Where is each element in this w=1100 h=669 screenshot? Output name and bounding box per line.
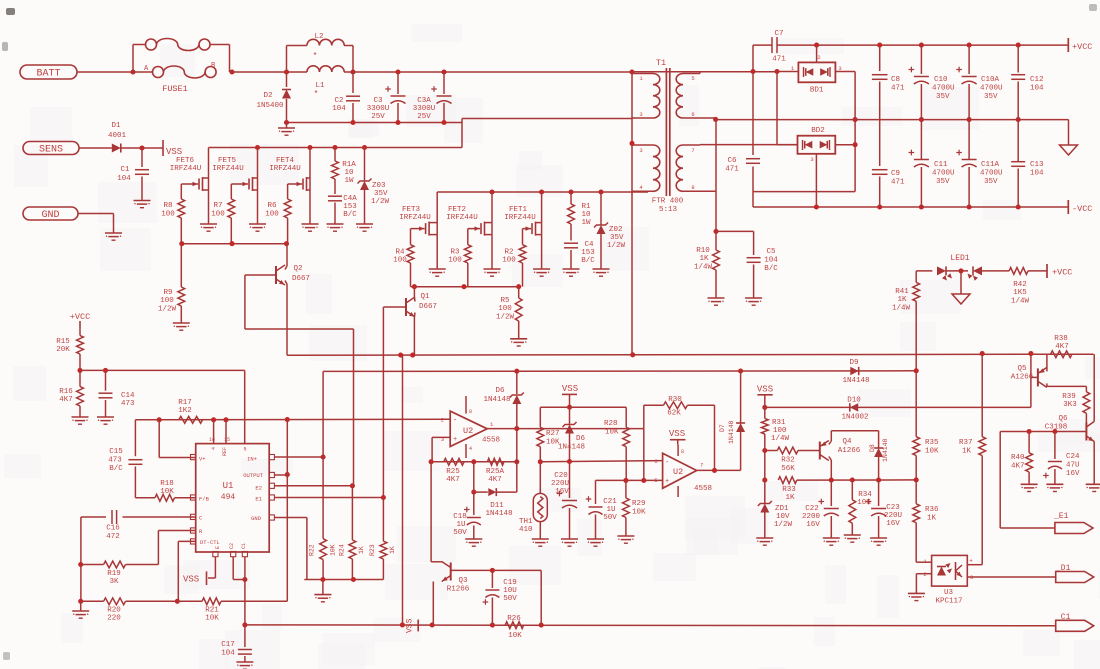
node C7 rail [750, 69, 755, 74]
diode D9 1N4148 [842, 359, 869, 385]
svg-text:B/C: B/C [764, 265, 778, 273]
svg-text:7: 7 [700, 462, 703, 469]
svg-text:1/4W: 1/4W [892, 305, 911, 313]
svg-text:R31: R31 [772, 419, 786, 427]
svg-text:1K2: 1K2 [178, 407, 192, 415]
ground at GND terminal [105, 233, 122, 240]
wire R17 line [135, 417, 450, 422]
svg-text:FET6: FET6 [176, 157, 195, 165]
svg-text:R35: R35 [925, 439, 939, 447]
svg-text:1/4W: 1/4W [1011, 298, 1030, 306]
svg-text:DT-CTL: DT-CTL [200, 539, 220, 546]
diode D6 1N4148 (top) [483, 371, 523, 428]
transistor FET4 IRFZ44U [269, 148, 318, 232]
svg-text:471: 471 [772, 56, 786, 64]
svg-text:R18: R18 [160, 480, 174, 488]
capacitor C17 104 [221, 641, 253, 669]
svg-text:R28: R28 [604, 420, 618, 428]
wire R30 left vertical [643, 405, 645, 428]
led LED1a [937, 266, 952, 280]
svg-text:TH1: TH1 [519, 518, 533, 526]
svg-text:VSS: VSS [562, 384, 578, 394]
resistor R21 10K [177, 598, 287, 623]
wire x402 vertical [402, 355, 404, 625]
wire BD1 right vertical [853, 72, 858, 192]
capacitor C3A 3300U 25V [413, 72, 452, 123]
ground below C1 [134, 201, 151, 208]
wire Q1 collector [413, 287, 416, 302]
node bottom line left [242, 622, 247, 627]
wire U1 E2 line [274, 485, 352, 487]
svg-text:100: 100 [773, 427, 787, 435]
svg-text:D8: D8 [869, 444, 876, 452]
svg-text:R40: R40 [1011, 454, 1025, 462]
terminal GND [23, 207, 78, 221]
resistor R17 1K2 [178, 399, 202, 423]
wire secondary mid rail start [713, 117, 718, 122]
svg-text:R29: R29 [632, 500, 646, 508]
svg-text:R22: R22 [309, 544, 316, 556]
svg-text:R20: R20 [107, 607, 121, 615]
svg-text:C14: C14 [121, 392, 135, 400]
svg-text:-VCC: -VCC [1072, 204, 1092, 214]
svg-text:-: - [665, 459, 669, 467]
svg-text:1/2W: 1/2W [774, 521, 793, 529]
capacitor C4A 153 B/C [327, 195, 358, 231]
node C17 line top [242, 577, 247, 582]
svg-text:10: 10 [344, 169, 354, 177]
capacitor C24 47U 16V [1043, 432, 1080, 492]
svg-text:V+: V+ [199, 456, 206, 463]
node DTCTL bottom [175, 599, 180, 604]
svg-text:E: E [215, 546, 221, 549]
svg-text:471: 471 [891, 85, 905, 93]
svg-text:R23: R23 [369, 544, 376, 556]
wire U1 OUTPUT line [274, 474, 287, 476]
svg-text:C10: C10 [934, 76, 948, 84]
svg-text:1K: 1K [785, 494, 795, 502]
svg-text:D1: D1 [111, 122, 121, 130]
svg-text:1/2W: 1/2W [371, 198, 390, 206]
svg-text:R27: R27 [546, 430, 560, 438]
wire E1 loop [1000, 432, 1055, 529]
svg-text:104: 104 [221, 650, 235, 658]
wire Q6 emitter [1086, 442, 1100, 492]
svg-text:1N4148: 1N4148 [483, 396, 510, 404]
wire T1 to BD1 rail [632, 71, 777, 73]
svg-text:472: 472 [106, 533, 120, 541]
transformer T1 core [656, 58, 670, 196]
wire R10 top [715, 119, 717, 231]
svg-text:56K: 56K [781, 465, 795, 473]
svg-text:16V: 16V [806, 521, 820, 529]
svg-text:GND: GND [251, 515, 262, 522]
node OUTPUT [285, 472, 290, 477]
wire GND to ground [78, 214, 114, 234]
capacitor C12 104 [1011, 45, 1044, 120]
svg-text:1K: 1K [389, 546, 396, 554]
resistor R20 220 [81, 598, 178, 623]
wire U1 IN+ line [274, 456, 323, 458]
wire D10 right vertical [1030, 354, 1032, 408]
svg-text:1N4002: 1N4002 [841, 414, 868, 422]
node L network right [350, 69, 355, 74]
svg-text:10K: 10K [508, 632, 522, 640]
capacitor C19 10U 50V [483, 570, 518, 625]
wire D10 line [765, 406, 1031, 408]
ground below C16 left [72, 601, 89, 618]
wire U2b plus line [596, 478, 663, 483]
node E1 Q1base [381, 495, 386, 500]
wire gate bus row2 [411, 284, 522, 289]
bridge BD2 [777, 127, 855, 207]
svg-text:+: + [665, 478, 669, 486]
svg-text:10U: 10U [503, 587, 517, 595]
svg-text:C6: C6 [727, 157, 737, 165]
svg-text:+: + [453, 436, 457, 444]
svg-text:100: 100 [160, 297, 174, 305]
wire R30 line [644, 396, 715, 470]
svg-text:R2: R2 [504, 249, 513, 257]
resistor R31 100 1/4W [761, 407, 789, 450]
transistor FET5 IRFZ44U [212, 148, 266, 232]
wire Q3 emitter [432, 582, 434, 626]
svg-text:R1266: R1266 [447, 586, 470, 594]
wire BD2 left vertical [776, 72, 778, 145]
resistor R24 1K [339, 486, 366, 580]
node fuse right [229, 69, 234, 74]
svg-text:BATT: BATT [36, 69, 60, 80]
svg-text:U2: U2 [673, 467, 683, 477]
svg-text:R16: R16 [59, 388, 73, 396]
svg-text:IRFZ44U: IRFZ44U [399, 214, 431, 222]
svg-text:35V: 35V [374, 190, 388, 198]
svg-text:ZD1: ZD1 [775, 505, 789, 513]
capacitor C5 104 B/C [745, 231, 778, 305]
transistor FET2 IRFZ44U [446, 192, 500, 276]
wire gate bus row1 [179, 241, 289, 246]
svg-text:1N4148: 1N4148 [882, 438, 889, 462]
svg-text:+VCC: +VCC [1052, 268, 1072, 278]
svg-text:_E1: _E1 [1053, 512, 1069, 521]
svg-text:IRFZ44U: IRFZ44U [170, 165, 202, 173]
wire R31 to R33 [764, 451, 766, 481]
fuse FUSE1 bottom branch [133, 62, 216, 94]
transistor FET1 IRFZ44U [504, 192, 550, 276]
svg-text:C11: C11 [934, 161, 948, 169]
svg-text:4K7: 4K7 [1055, 343, 1069, 351]
transistor Q6 C3198 [1045, 415, 1094, 442]
capacitor C15 473 B/C [108, 420, 142, 498]
resistor R35 10K [913, 371, 939, 480]
node C1 top [139, 145, 144, 150]
wire Q2 emitter [285, 281, 287, 356]
svg-text:3: 3 [838, 65, 841, 72]
svg-text:35V: 35V [610, 234, 624, 242]
svg-text:1U: 1U [456, 521, 465, 529]
T1 label FTR 400 5:13 [652, 198, 684, 215]
svg-text:FET4: FET4 [276, 157, 295, 165]
svg-text:C2: C2 [334, 97, 343, 105]
capacitor C13 104 [1011, 120, 1044, 207]
ground below R22 [314, 580, 331, 602]
svg-text:D9: D9 [849, 359, 858, 367]
svg-text:1K: 1K [962, 448, 972, 456]
inductor L1 [307, 66, 344, 99]
ic U1 494 box [196, 437, 270, 552]
svg-text:104: 104 [1030, 85, 1044, 93]
svg-text:REF: REF [222, 447, 228, 456]
node fuse left [130, 45, 135, 75]
node R22 top [321, 454, 326, 459]
svg-text:VSS: VSS [183, 575, 199, 585]
resistor R25A 4K7 [486, 458, 505, 484]
svg-text:3300U: 3300U [413, 105, 436, 113]
wire bottom VSS line [245, 622, 1056, 627]
wire U3 pin2 [908, 574, 932, 601]
svg-text:VSS: VSS [757, 385, 773, 395]
resistor R8 100 [161, 184, 184, 244]
wire FET row1 drain rail [209, 145, 463, 150]
wire LED to R42 [982, 270, 1009, 272]
capacitor C22 2200 16V [802, 480, 840, 545]
T1 primary bottom winding [632, 145, 660, 191]
svg-text:104: 104 [764, 257, 778, 265]
svg-text:R1A: R1A [342, 161, 356, 169]
svg-text:1/4W: 1/4W [771, 435, 790, 443]
wire -VCC rail [753, 204, 1068, 209]
resistor R41 1K 1/4W [892, 271, 920, 371]
resistor R28 10K [604, 407, 630, 480]
resistor R3 100 [448, 229, 471, 287]
svg-text:10K: 10K [632, 509, 646, 517]
wire Q2 base route [245, 275, 354, 486]
svg-text:C24: C24 [1066, 453, 1080, 461]
svg-text:L2: L2 [314, 33, 323, 41]
svg-text:1/2W: 1/2W [496, 314, 515, 322]
resistor R40 4K7 [1011, 432, 1038, 492]
node R32 junction [762, 448, 767, 453]
svg-text:100: 100 [448, 257, 462, 265]
node LED mid [958, 268, 963, 273]
svg-text:100: 100 [393, 257, 407, 265]
svg-text:C8: C8 [891, 76, 900, 84]
resistor R10 1K 1/4W [694, 231, 725, 305]
svg-text:C12: C12 [1030, 76, 1044, 84]
resistor R33 1K [778, 477, 797, 502]
wire mid rail [716, 117, 1069, 122]
resistor R4 100 [393, 229, 414, 287]
svg-text:4K7: 4K7 [488, 476, 502, 484]
resistor R42 1K5 1/4W [1009, 268, 1047, 306]
svg-text:C4A: C4A [343, 195, 357, 203]
zener Z03 35V 1/2W [356, 148, 390, 232]
svg-text:IN+: IN+ [247, 456, 257, 463]
svg-text:C3A: C3A [417, 97, 431, 105]
svg-text:VSS: VSS [669, 429, 685, 439]
svg-text:R10: R10 [696, 247, 710, 255]
svg-text:C11A: C11A [981, 161, 1000, 169]
svg-text:C1: C1 [120, 166, 130, 174]
resistor R6 100 [265, 184, 291, 244]
T1 primary top winding [632, 74, 660, 119]
svg-text:R5: R5 [500, 297, 510, 305]
node L network left [284, 46, 289, 75]
thermistor TH1 410 [519, 462, 549, 546]
wire C5 branch [716, 230, 754, 232]
svg-text:FET2: FET2 [448, 206, 466, 214]
svg-text:2: 2 [817, 54, 820, 61]
transistor Q2 D667 [276, 265, 310, 285]
svg-text:C19: C19 [503, 579, 517, 587]
svg-text:+VCC: +VCC [70, 312, 90, 322]
svg-text:D2: D2 [263, 92, 272, 100]
svg-text:LED1: LED1 [950, 254, 969, 263]
svg-text:16V: 16V [1066, 470, 1080, 478]
transistor FET3 IRFZ44U [399, 192, 445, 276]
svg-text:7: 7 [691, 147, 694, 154]
svg-text:6: 6 [654, 458, 657, 465]
svg-text:FUSE1: FUSE1 [162, 84, 188, 94]
resistor R23 1K [369, 498, 396, 580]
fuse F1a top branch [133, 39, 230, 72]
wire U3 pin3 to D1 [967, 576, 1055, 578]
svg-text:C16: C16 [106, 525, 120, 533]
wire Q4 collector [829, 457, 832, 481]
transistor Q5 A1266 [1011, 365, 1047, 387]
svg-text:4001: 4001 [108, 132, 127, 140]
svg-text:4700U: 4700U [932, 85, 955, 93]
svg-text:473: 473 [121, 400, 135, 408]
svg-text:15: 15 [224, 437, 230, 443]
svg-text:R25A: R25A [486, 468, 505, 476]
svg-text:FTR 400: FTR 400 [652, 198, 684, 206]
svg-text:C1: C1 [241, 543, 247, 549]
svg-text:1N4148: 1N4148 [842, 377, 869, 385]
svg-text:C9: C9 [891, 170, 900, 178]
svg-text:5: 5 [243, 447, 246, 453]
svg-text:Q2: Q2 [293, 265, 302, 273]
svg-text:2: 2 [923, 571, 926, 578]
svg-text:C10A: C10A [981, 76, 1000, 84]
svg-text:10K: 10K [330, 544, 337, 556]
svg-text:C15: C15 [109, 448, 123, 456]
svg-text:4K7: 4K7 [1011, 463, 1025, 471]
ground below D2 [278, 123, 295, 136]
svg-text:Q4: Q4 [842, 438, 852, 446]
resistor R1 10 1W [568, 192, 591, 241]
diode D10 1N4002 [841, 397, 868, 422]
svg-text:T1: T1 [656, 58, 666, 68]
resistor R9 100 1/2W [158, 244, 190, 331]
svg-text:D6: D6 [576, 435, 586, 443]
resistor R19 3K [81, 561, 159, 586]
wire R25A to output [516, 429, 518, 462]
svg-text:4700U: 4700U [932, 170, 955, 178]
svg-text:50V: 50V [603, 514, 617, 522]
svg-text:5:13: 5:13 [659, 206, 678, 214]
wire thermistor line [538, 459, 663, 464]
svg-text:*: * [314, 90, 319, 99]
svg-text:A1266: A1266 [838, 447, 861, 455]
terminal +VCC right [1047, 264, 1072, 278]
transistor Q4 A1266 [820, 438, 861, 461]
svg-text:3K: 3K [109, 578, 119, 586]
svg-text:220U: 220U [884, 512, 902, 520]
svg-text:R8: R8 [163, 202, 172, 210]
svg-text:1K5: 1K5 [1013, 289, 1027, 297]
wire U2a out to U2b plus [643, 429, 645, 481]
svg-text:C18: C18 [453, 513, 467, 521]
capacitor C10 4700U 35V [909, 45, 955, 120]
wire C16 left [78, 517, 83, 601]
transistor Q1 D667 [406, 293, 437, 317]
led LED1b [968, 266, 983, 280]
resistor R22 10K [309, 457, 337, 580]
svg-text:R26: R26 [507, 615, 521, 623]
wire Q3 base line [451, 570, 542, 625]
capacitor C2 104 [332, 72, 360, 123]
wire SENS to D1 [79, 147, 112, 149]
node E2 Q2base [350, 483, 355, 488]
diode D11 1N4148 [471, 462, 517, 518]
wire center tap return [462, 119, 632, 148]
svg-text:2200: 2200 [802, 513, 821, 521]
svg-text:50V: 50V [503, 595, 517, 603]
svg-text:C5: C5 [766, 248, 776, 256]
resistor R29 10K [617, 480, 646, 543]
svg-text:35V: 35V [984, 178, 998, 186]
capacitor C8 471 [872, 45, 905, 166]
svg-text:R41: R41 [895, 288, 909, 296]
svg-text:8: 8 [469, 409, 472, 415]
resistor R26 10K [505, 615, 524, 640]
svg-text:1W: 1W [344, 177, 354, 185]
svg-text:1/2W: 1/2W [158, 306, 177, 314]
svg-text:R33: R33 [782, 486, 796, 494]
svg-text:R38: R38 [1054, 335, 1068, 343]
svg-text:R30: R30 [668, 396, 682, 404]
capacitor C21 1U 50V [586, 480, 618, 546]
svg-text:104: 104 [1030, 170, 1044, 178]
node VSS mid [567, 405, 572, 410]
svg-text:IRFZ44U: IRFZ44U [504, 214, 536, 222]
svg-text:1K: 1K [358, 546, 365, 554]
node BD2 drop [774, 69, 779, 74]
T1 secondary bottom winding [676, 145, 716, 192]
svg-text:471: 471 [891, 179, 905, 187]
svg-text:1/4W: 1/4W [694, 264, 713, 272]
opamp U2b 4558 [654, 445, 712, 497]
svg-text:2: 2 [441, 417, 444, 424]
wire OUTPUT vertical [286, 420, 288, 602]
svg-text:35V: 35V [936, 93, 950, 101]
wire Q6 base line [1000, 429, 1086, 434]
resistor R39 3K3 [1062, 386, 1090, 422]
wire T1 left vertical [631, 72, 633, 355]
wire RT route [158, 531, 195, 565]
wire cap bottom rail [284, 120, 462, 125]
svg-text:IRFZ44U: IRFZ44U [446, 214, 478, 222]
resistor R18 10K [135, 480, 195, 501]
svg-text:1W: 1W [581, 219, 591, 227]
diode D1 4001 [108, 122, 127, 153]
svg-text:1N5400: 1N5400 [256, 102, 284, 110]
svg-text:10V: 10V [776, 513, 790, 521]
svg-text:35V: 35V [936, 178, 950, 186]
wire LED row [916, 254, 970, 271]
node C3 top [441, 69, 446, 74]
